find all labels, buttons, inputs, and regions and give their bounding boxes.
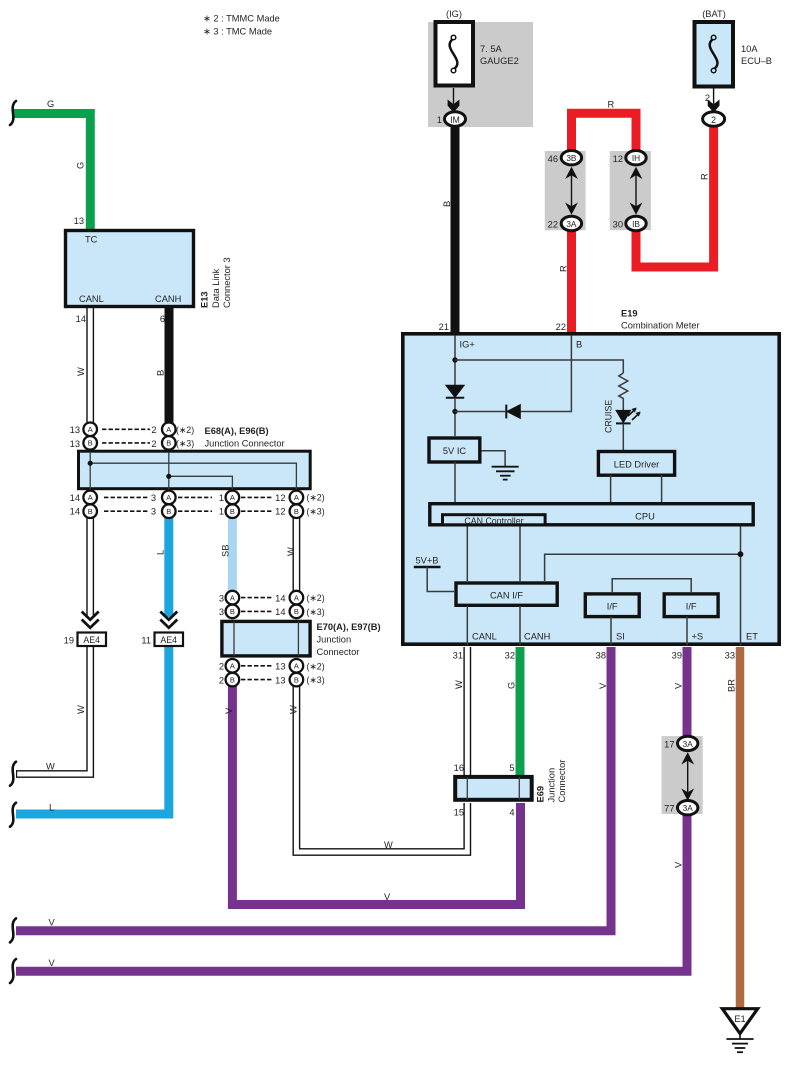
svg-text:R: R: [559, 265, 569, 272]
svg-text:33: 33: [725, 651, 735, 661]
svg-text:B: B: [576, 340, 582, 350]
svg-text:B: B: [88, 439, 93, 448]
svg-text:V: V: [49, 958, 56, 968]
svg-text:IB: IB: [632, 219, 640, 229]
wire G green from break to TC pin 13: [14, 114, 90, 233]
break squiggle V wire 1: [10, 918, 16, 942]
svg-text:AE4: AE4: [83, 635, 100, 645]
svg-text:3: 3: [151, 493, 156, 503]
svg-text:Junction: Junction: [547, 768, 557, 803]
svg-text:∗ 3 : TMC Made: ∗ 3 : TMC Made: [203, 27, 272, 37]
svg-text:V: V: [49, 917, 56, 927]
svg-text:22: 22: [556, 322, 566, 332]
I/F box left: [585, 594, 639, 617]
svg-text:V: V: [674, 861, 684, 868]
svg-text:I/F: I/F: [607, 602, 618, 612]
svg-text:13: 13: [275, 675, 285, 685]
wire V purple +S through 3A pair to break: [16, 647, 687, 971]
svg-text:AE4: AE4: [160, 635, 177, 645]
svg-text:V: V: [598, 682, 608, 689]
break squiggle W wire: [10, 762, 16, 786]
svg-text:V: V: [674, 682, 684, 689]
I/F box right: [664, 594, 718, 617]
svg-text:2: 2: [711, 115, 716, 125]
arrowhead up below IH: [630, 167, 643, 179]
svg-text:R: R: [700, 173, 710, 180]
oval IB: [626, 216, 646, 230]
node dot below D1: [452, 409, 457, 414]
svg-text:5V+B: 5V+B: [416, 556, 439, 566]
connector pair shading 3A/3A: [662, 736, 703, 814]
svg-text:L: L: [49, 803, 54, 813]
arrowhead down above IB: [630, 203, 643, 215]
svg-text:W: W: [384, 840, 393, 850]
CPU to ET line: [740, 527, 742, 646]
svg-text:16: 16: [454, 763, 464, 773]
svg-text:G: G: [47, 99, 54, 109]
svg-text:32: 32: [505, 651, 515, 661]
oval 3A bottom: [678, 801, 698, 815]
svg-text:GAUGE2: GAUGE2: [480, 56, 519, 66]
svg-text:A: A: [294, 593, 299, 602]
svg-text:A: A: [88, 425, 93, 434]
ground E1 stem and bars: [739, 1034, 741, 1040]
CAN Controller box: [443, 515, 546, 525]
oval 3A: [561, 216, 581, 230]
wire to resistor: [455, 360, 623, 373]
svg-text:(IG): (IG): [446, 9, 462, 19]
svg-text:3A: 3A: [683, 803, 694, 813]
svg-text:G: G: [507, 682, 517, 689]
E68 circles below box: [83, 491, 97, 505]
svg-text:3A: 3A: [566, 219, 577, 229]
wire W CANL meter to E69 pin 16: [463, 647, 471, 778]
svg-text:CANL: CANL: [79, 294, 104, 304]
wire W from TC CANL pin 14: [86, 306, 94, 617]
E69 internal lines: [466, 777, 468, 800]
node dot IG+ branch: [452, 357, 457, 362]
wire from B pin down: [520, 335, 571, 412]
svg-text:12: 12: [275, 507, 285, 517]
svg-text:A: A: [166, 425, 171, 434]
svg-text:1: 1: [219, 507, 224, 517]
junction connector E70 box: [222, 621, 310, 656]
svg-text:B: B: [294, 607, 299, 616]
svg-text:B: B: [230, 607, 235, 616]
svg-text:A: A: [294, 493, 299, 502]
svg-text:CRUISE: CRUISE: [604, 400, 614, 433]
svg-text:E70(A), E97(B): E70(A), E97(B): [317, 622, 381, 632]
svg-text:77: 77: [664, 804, 674, 814]
AE4 box left: [78, 633, 107, 647]
LED cruise: [616, 410, 631, 422]
svg-text:IG+: IG+: [460, 340, 475, 350]
svg-text:V: V: [384, 892, 391, 902]
svg-text:39: 39: [672, 651, 682, 661]
svg-text:(∗3): (∗3): [307, 607, 325, 617]
wire V purple from E70 to E69 pin 4: [232, 684, 520, 905]
wire R red 3A to meter pin 22: [567, 226, 576, 332]
wire G green CANH meter to E69 pin 5: [516, 647, 525, 778]
svg-text:A: A: [230, 662, 235, 671]
svg-text:W: W: [76, 705, 86, 714]
svg-text:6: 6: [160, 314, 165, 324]
arrow into IM: [448, 100, 460, 113]
fuse GAUGE2 element: [450, 39, 458, 70]
svg-text:(∗2): (∗2): [307, 661, 325, 671]
svg-text:B: B: [166, 439, 171, 448]
svg-text:12: 12: [613, 154, 623, 164]
svg-text:Connector: Connector: [557, 760, 567, 803]
svg-text:4: 4: [509, 808, 514, 818]
break squiggle green wire: [10, 101, 16, 125]
svg-text:B: B: [442, 201, 452, 207]
combination meter E19 box: [403, 334, 779, 644]
svg-text:A: A: [294, 662, 299, 671]
svg-text:(∗2): (∗2): [176, 425, 194, 435]
svg-text:ET: ET: [746, 632, 758, 642]
svg-text:3A: 3A: [683, 739, 694, 749]
break squiggle V wire 2: [10, 959, 16, 983]
svg-text:14: 14: [275, 593, 285, 603]
svg-text:A: A: [166, 493, 171, 502]
lead from fuse to arrow: [453, 88, 455, 104]
ground E1 triangle: [722, 1009, 757, 1034]
connector pair shading 3B/3A: [545, 151, 586, 230]
wire W from E70 pin 13 to E69 pin 15: [296, 684, 467, 852]
svg-text:B: B: [156, 370, 166, 376]
fuse GAUGE2 box: [436, 22, 474, 86]
AE4 arrow right (chevrons): [160, 612, 177, 620]
svg-text:21: 21: [439, 322, 449, 332]
svg-text:W: W: [76, 367, 86, 376]
arrowhead down above 3A: [565, 203, 578, 215]
I/F bracket: [612, 579, 691, 592]
svg-text:(∗3): (∗3): [307, 675, 325, 685]
svg-text:(∗2): (∗2): [307, 493, 325, 503]
svg-text:Data Link: Data Link: [211, 268, 221, 308]
svg-text:3: 3: [151, 507, 156, 517]
wire R red from BAT oval 2 to IB: [636, 124, 714, 267]
5V IC box: [429, 438, 480, 462]
wire BR brown ET to E1 ground: [736, 647, 745, 1011]
connector pair shading IH/IB: [610, 151, 651, 230]
oval 3A top: [678, 736, 698, 750]
junction connector E69 box: [455, 777, 532, 800]
E68 circles above box: [83, 423, 97, 437]
svg-text:13: 13: [70, 439, 80, 449]
wire L cyan from AE4 to break: [16, 646, 169, 814]
connector TC (E13 Data Link Connector 3): [66, 231, 194, 307]
svg-text:3: 3: [219, 607, 224, 617]
svg-text:V: V: [224, 707, 234, 714]
wire W col4 below E68 junction: [292, 492, 300, 598]
svg-text:B: B: [230, 675, 235, 684]
svg-text:10A: 10A: [741, 44, 758, 54]
svg-text:A: A: [230, 593, 235, 602]
svg-text:SB: SB: [221, 545, 231, 557]
svg-text:B: B: [294, 675, 299, 684]
svg-text:5V IC: 5V IC: [443, 446, 467, 456]
svg-text:Junction: Junction: [317, 635, 352, 645]
svg-text:22: 22: [548, 220, 558, 230]
node dot on ET line: [738, 551, 744, 557]
wire W left from AE4 to break: [16, 646, 90, 774]
svg-text:BR: BR: [727, 679, 737, 692]
arrow line IH to IB: [635, 170, 637, 212]
svg-text:31: 31: [453, 651, 463, 661]
svg-text:14: 14: [76, 314, 86, 324]
wire V purple SI to break: [16, 647, 611, 931]
wire R red top loop 3B to IH: [572, 113, 637, 156]
svg-text:SI: SI: [616, 632, 625, 642]
svg-text:7. 5A: 7. 5A: [480, 44, 503, 54]
svg-text:A: A: [88, 493, 93, 502]
svg-text:W: W: [286, 547, 296, 556]
break squiggle L wire: [10, 803, 16, 827]
svg-text:13: 13: [74, 216, 84, 226]
svg-text:2: 2: [151, 439, 156, 449]
svg-text:A: A: [230, 493, 235, 502]
E68 internal bus lines: [89, 452, 91, 495]
lead from fuse to arrow: [713, 87, 715, 104]
wire L cyan below E68 junction: [164, 492, 173, 617]
svg-text:CAN I/F: CAN I/F: [490, 591, 523, 601]
svg-text:I/F: I/F: [686, 602, 697, 612]
svg-text:3: 3: [219, 593, 224, 603]
fuse ECU-B element: [710, 39, 718, 70]
arrow line 3A to 3A: [687, 756, 689, 798]
svg-text:∗ 2 : TMMC Made: ∗ 2 : TMMC Made: [203, 14, 280, 24]
resistor (cruise LED series): [619, 373, 628, 410]
svg-text:W: W: [454, 680, 464, 689]
arrowhead down above 3A bottom: [681, 789, 694, 801]
CAN I/F box: [456, 583, 557, 605]
svg-text:Connector: Connector: [317, 647, 360, 657]
5V IC to CPU line: [454, 462, 456, 502]
arrow into oval 2: [708, 100, 720, 113]
svg-text:ECU–B: ECU–B: [741, 56, 772, 66]
svg-text:LED Driver: LED Driver: [614, 460, 659, 470]
svg-text:CANH: CANH: [524, 632, 550, 642]
fuse block shading (IG): [428, 22, 533, 127]
svg-text:B: B: [166, 507, 171, 516]
svg-text:IH: IH: [632, 153, 640, 163]
svg-text:Junction Connector: Junction Connector: [205, 439, 285, 449]
svg-text:E1: E1: [734, 1014, 745, 1024]
svg-text:19: 19: [64, 636, 74, 646]
svg-text:17: 17: [664, 740, 674, 750]
E70 circles below box: [226, 659, 240, 673]
arrow line 3B to 3A: [571, 170, 573, 212]
oval IH: [626, 151, 646, 165]
svg-text:CAN Controller: CAN Controller: [464, 516, 523, 526]
svg-text:+S: +S: [692, 632, 704, 642]
svg-text:(BAT): (BAT): [702, 9, 726, 19]
wire B black from TC CANH pin 6: [165, 306, 174, 426]
svg-text:30: 30: [613, 220, 623, 230]
arrowhead up below 3B: [565, 167, 578, 179]
svg-text:G: G: [76, 162, 86, 169]
AE4 box right: [155, 633, 184, 647]
junction connector E68 box: [79, 451, 311, 489]
svg-text:CANH: CANH: [155, 294, 181, 304]
CAN I/F to CANL/CANH pin lines: [466, 606, 468, 645]
fuse ECU-B box: [695, 22, 734, 87]
svg-text:15: 15: [454, 808, 464, 818]
svg-text:W: W: [46, 762, 55, 772]
svg-text:E68(A), E96(B): E68(A), E96(B): [205, 426, 269, 436]
diode D1 vertical: [446, 385, 464, 397]
svg-text:IM: IM: [450, 115, 460, 125]
wire SB below E68 junction: [228, 492, 237, 598]
oval 3B: [561, 151, 581, 165]
svg-text:2: 2: [219, 675, 224, 685]
meter internal: IG+ feed line: [454, 335, 456, 385]
svg-text:12: 12: [275, 493, 285, 503]
svg-text:5: 5: [509, 763, 514, 773]
CAN controller to CAN I/F lines: [466, 527, 468, 582]
svg-text:E13: E13: [200, 291, 210, 308]
I/F to SI pin line: [610, 617, 612, 646]
svg-text:38: 38: [596, 651, 606, 661]
svg-text:14: 14: [70, 493, 80, 503]
svg-text:Combination Meter: Combination Meter: [621, 321, 700, 331]
svg-text:(∗2): (∗2): [307, 593, 325, 603]
oval connector 2: [703, 112, 725, 126]
svg-text:R: R: [608, 100, 615, 110]
svg-text:CPU: CPU: [635, 512, 655, 522]
svg-text:13: 13: [70, 425, 80, 435]
svg-text:13: 13: [275, 662, 285, 672]
oval connector IM: [445, 112, 466, 126]
svg-text:(∗3): (∗3): [176, 439, 194, 449]
svg-text:2: 2: [219, 662, 224, 672]
svg-text:CANL: CANL: [472, 632, 497, 642]
AE4 arrow left (chevrons): [82, 612, 99, 620]
wire B black from IM to meter pin 21: [451, 124, 460, 332]
5V+B bar symbol: [414, 566, 441, 568]
CAN I/F top right wire to ET line: [545, 554, 741, 581]
svg-text:L: L: [156, 550, 166, 555]
I/F to +S pin line: [686, 617, 688, 646]
svg-text:Connector 3: Connector 3: [222, 257, 232, 308]
svg-text:14: 14: [70, 507, 80, 517]
E70 internal lines: [233, 621, 235, 656]
svg-text:B: B: [88, 507, 93, 516]
svg-text:B: B: [294, 507, 299, 516]
svg-text:W: W: [289, 705, 299, 714]
svg-text:2: 2: [151, 425, 156, 435]
svg-text:E69: E69: [536, 786, 546, 803]
diode D2 horizontal pointing left: [507, 405, 520, 419]
LED Driver to CPU lines: [610, 475, 612, 502]
svg-text:46: 46: [548, 154, 558, 164]
svg-text:1: 1: [219, 493, 224, 503]
svg-text:(∗3): (∗3): [307, 507, 325, 517]
LED Driver box: [598, 452, 674, 476]
svg-text:3B: 3B: [566, 153, 577, 163]
E70 circles above box: [226, 591, 240, 605]
ground inside meter: [482, 451, 506, 467]
arrowhead up below 3A top: [681, 752, 694, 764]
svg-text:B: B: [230, 507, 235, 516]
svg-text:E19: E19: [621, 309, 638, 319]
CPU box: [430, 504, 753, 525]
svg-text:11: 11: [141, 636, 151, 646]
LED arrows: [628, 409, 636, 417]
svg-text:1: 1: [437, 115, 442, 125]
svg-text:TC: TC: [85, 235, 98, 245]
svg-text:14: 14: [275, 607, 285, 617]
